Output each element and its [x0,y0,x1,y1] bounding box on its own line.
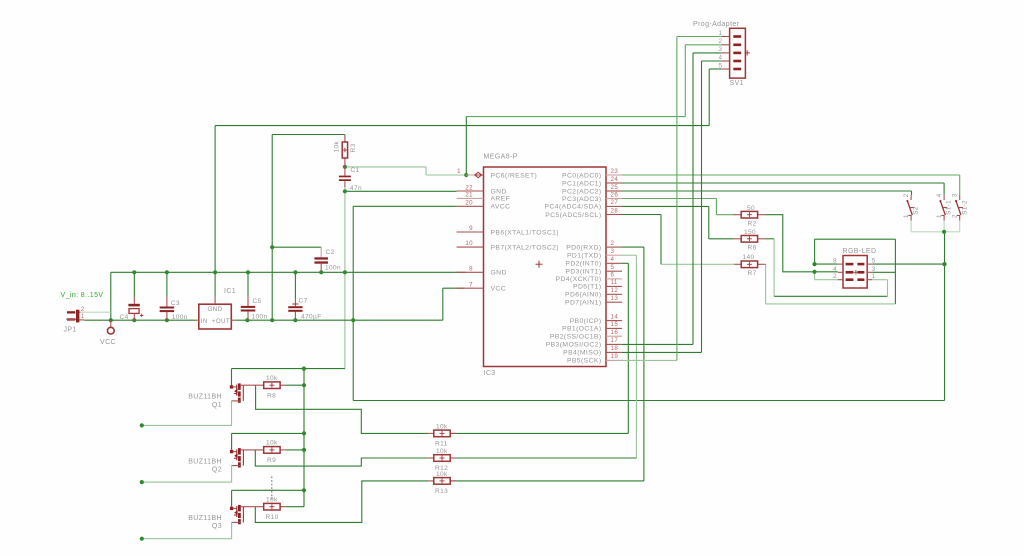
wire GND rail [111,271,466,273]
wire pin22 GND [345,190,457,192]
IC3 origin cross [536,263,543,265]
wire C5 top [247,272,249,296]
svg-text:PB0(ICP): PB0(ICP) [570,318,602,325]
svg-text:Q3: Q3 [212,523,222,530]
wire R9 right link [286,449,304,451]
svg-text:PC4(ADC4/SDA): PC4(ADC4/SDA) [545,204,602,211]
wire AVCC pin20 [353,205,456,207]
switch S1-2 [959,195,961,200]
capacitor C7 470uF [294,298,296,306]
svg-text:PC0(ADC0): PC0(ADC0) [562,172,601,179]
svg-text:3: 3 [872,266,876,273]
svg-text:2: 2 [719,38,723,45]
wire LED pin8 link [815,263,838,265]
svg-text:23: 23 [611,168,619,175]
svg-text:5: 5 [611,264,615,271]
capacitor C4 electrolytic [133,297,135,304]
svg-text:PD7(AIN1): PD7(AIN1) [565,300,601,307]
svg-text:5: 5 [872,258,876,265]
wire C4 top [133,272,135,296]
resistor R8 10k [243,384,263,386]
svg-text:10k: 10k [334,140,341,152]
svg-text:R11: R11 [435,441,448,448]
wire +5V long bottom horizontal [353,400,944,402]
SV1 origin cross [745,52,751,54]
svg-text:PB2(SS/OC1B): PB2(SS/OC1B) [550,334,602,341]
svg-text:1: 1 [872,273,876,280]
wire PC5 row to R7 [622,214,661,216]
wire Q3 top rail [232,489,304,491]
svg-text:2: 2 [81,307,85,313]
svg-text:4: 4 [833,266,837,273]
wire R2 right to LED pin4 [766,215,838,272]
svg-text:BUZ11BH: BUZ11BH [188,515,222,522]
svg-text:GND: GND [208,306,223,313]
switch S2 [910,195,912,200]
wire LED pin5 to switches [872,263,944,265]
svg-text:Q1: Q1 [212,402,222,409]
svg-text:4: 4 [719,54,723,61]
svg-text:2: 2 [952,214,959,218]
svg-text:SV1: SV1 [730,80,744,87]
svg-text:8: 8 [833,258,837,265]
svg-text:PB4(MISO): PB4(MISO) [563,350,601,357]
svg-text:IC3: IC3 [484,370,496,377]
svg-text:PC5(ADC5/SCL): PC5(ADC5/SCL) [545,212,601,219]
svg-text:PD4(XCK/T0): PD4(XCK/T0) [556,276,602,283]
switch S1-1 [943,195,945,200]
svg-text:14: 14 [611,313,619,320]
wire +5V rail [236,319,443,321]
svg-text:PB7(XTAL2/TOSC2): PB7(XTAL2/TOSC2) [491,244,559,251]
capacitor C2 100n [320,247,322,257]
svg-text:10k: 10k [436,423,448,430]
svg-text:28: 28 [611,207,619,214]
capacitor C3 100n [166,297,168,307]
wire R7 right to LED pin8 loop [765,264,767,304]
svg-text:10k: 10k [436,448,448,455]
wire R6 right to LED pin1 loop [766,238,775,240]
svg-text:11: 11 [611,279,618,286]
resistor R10 10k [243,506,263,508]
svg-text:S1-2: S1-2 [961,200,968,215]
svg-text:17: 17 [611,337,619,344]
wire GND bus verticals at Q column [303,369,305,507]
wire VCC to R3 top [272,134,345,136]
svg-text:50: 50 [747,205,755,212]
svg-text:PC1(ADC1): PC1(ADC1) [562,180,601,187]
resistor R7 140 [734,263,741,265]
svg-text:PD3(INT1): PD3(INT1) [565,269,601,276]
svg-text:V_in: 8..15V: V_in: 8..15V [61,292,104,299]
wire Q1 source down-left [142,401,232,426]
svg-text:19: 19 [611,353,619,360]
svg-text:18: 18 [611,345,619,352]
wire PB4 MISO to SV1 pin4 [622,351,702,353]
svg-text:3: 3 [952,193,959,197]
wire GND to Q1 [232,368,345,370]
svg-text:10k: 10k [436,471,448,478]
svg-text:20: 20 [465,200,473,207]
resistor R2 50 [733,214,741,216]
IC IC1 voltage regulator [199,304,232,329]
IC3 left pin stubs [475,174,484,176]
svg-text:R3: R3 [350,143,357,152]
resistor R9 10k [243,449,263,451]
svg-text:27: 27 [611,199,619,206]
wire Q3 gate tap to R13 [255,481,428,523]
RGB-LED pads and stubs [838,263,843,265]
svg-text:RGB-LED: RGB-LED [843,248,877,255]
svg-text:47n: 47n [350,185,362,192]
SV1 pin stubs and pads [721,36,729,38]
svg-text:IC1: IC1 [224,288,236,295]
junction dots [464,173,468,177]
wire PB5 SCK to SV1 pin1 [622,359,677,361]
svg-text:100n: 100n [325,264,341,271]
svg-text:2: 2 [833,273,837,280]
wire JP1 pin2 riser [110,272,112,320]
LED LED1 RGB-LED body [843,256,867,289]
supply symbol VCC [110,320,112,327]
wire SV1 pin5 link [709,68,721,70]
svg-text:470µF: 470µF [301,313,322,320]
svg-text:PB6(XTAL1/TOSC1): PB6(XTAL1/TOSC1) [491,229,559,236]
wire IC3 VCC pin7 [443,287,464,289]
svg-text:1: 1 [81,314,85,320]
IC3 pin1 inversion diamond [475,172,482,177]
svg-text:13: 13 [611,295,619,302]
svg-text:10: 10 [465,240,473,247]
svg-text:BUZ11BH: BUZ11BH [188,394,222,401]
transistor Q3 BUZ11BH [230,507,233,510]
wire RESET net from SV1 pin2 to IC3 pin1 [466,116,685,118]
svg-text:S2: S2 [913,206,920,215]
svg-text:Prog-Adapter: Prog-Adapter [693,21,740,28]
svg-text:R8: R8 [267,392,276,399]
svg-text:AVCC: AVCC [491,204,511,211]
svg-text:5: 5 [719,62,723,69]
capacitor C1 47n [344,167,346,176]
wire Q3 source down-left [142,522,232,538]
svg-text:6: 6 [611,272,615,279]
svg-text:PB1(OC1A): PB1(OC1A) [562,326,601,333]
svg-text:10k: 10k [266,440,278,447]
svg-text:PB3(MOSI/OC2): PB3(MOSI/OC2) [546,342,602,349]
wire PD1 to R12 [622,254,636,256]
wire C7 top [294,272,296,298]
svg-text:PC6(/RESET): PC6(/RESET) [491,172,538,179]
svg-text:3: 3 [719,46,723,53]
wire R3 bottom to C1 and IC3 pin1 [345,166,426,168]
svg-text:PB5(SCK): PB5(SCK) [567,358,602,365]
svg-text:C2: C2 [326,249,335,256]
svg-text:PD6(AIN0): PD6(AIN0) [565,292,601,299]
resistor R13 10k [428,480,434,482]
svg-text:R9: R9 [267,457,276,464]
svg-text:10k: 10k [266,497,278,504]
svg-text:C7: C7 [299,297,308,304]
svg-text:4: 4 [611,256,615,263]
svg-text:C1: C1 [351,167,360,174]
svg-text:IN: IN [201,318,208,325]
svg-text:C4: C4 [120,314,129,321]
svg-text:PD5(T1): PD5(T1) [573,284,601,291]
wire C3 top [166,272,168,296]
wire Vin rail [84,319,195,321]
wire R10 right link [286,506,304,508]
IC IC3 MEGA8-P body [484,167,607,367]
svg-text:100n: 100n [252,313,268,320]
svg-text:16: 16 [611,329,619,336]
wire Q2 source down-left [142,466,232,483]
svg-text:2: 2 [903,193,910,197]
svg-text:PD2(INT0): PD2(INT0) [565,261,601,268]
svg-text:24: 24 [611,176,619,183]
resistor R3 10k vertical [344,135,346,143]
svg-text:GND: GND [491,188,507,195]
wire PC4 row to R6 [622,205,709,207]
svg-text:8: 8 [469,265,473,272]
wire PC1 row to S1-1 [622,182,944,184]
svg-text:140: 140 [743,254,755,261]
svg-text:150: 150 [744,229,756,236]
svg-text:10k: 10k [266,375,278,382]
svg-text:12: 12 [611,287,619,294]
svg-text:BUZ11BH: BUZ11BH [188,458,222,465]
wire LED pin3 link [872,271,895,273]
svg-text:R2: R2 [748,220,757,227]
svg-text:VCC: VCC [491,286,507,293]
wire VCC vertical to IC1 GND [214,126,216,297]
wire PD0 to R13 [622,246,644,248]
svg-text:7: 7 [469,281,473,288]
svg-text:25: 25 [611,184,619,191]
svg-text:PC2(ADC2): PC2(ADC2) [562,188,601,195]
svg-text:R6: R6 [748,244,757,251]
svg-text:VCC: VCC [100,339,116,346]
wire PD2 to R11 [622,262,628,264]
RGB-LED polarity plus [854,271,859,273]
svg-text:PD0(RXD): PD0(RXD) [566,244,601,251]
svg-text:+OUT: +OUT [212,318,230,325]
svg-text:4: 4 [936,193,943,197]
svg-text:PC3(ADC3): PC3(ADC3) [562,196,601,203]
IC3 right pin stubs [606,174,622,176]
wire Q2 gate tap to R12 [255,450,428,466]
svg-text:15: 15 [611,321,619,328]
svg-text:21: 21 [465,192,473,199]
capacitor C5 100n [247,296,249,306]
wire switch bottom rail [911,231,960,233]
svg-text:9: 9 [469,225,473,232]
svg-text:3: 3 [611,248,615,255]
svg-text:2: 2 [611,240,615,247]
wire PC3 row to R2 [622,198,716,200]
svg-text:1: 1 [457,168,461,175]
svg-text:MEGA8-P: MEGA8-P [484,154,518,161]
svg-text:C5: C5 [253,298,262,305]
transistor Q2 BUZ11BH [230,450,233,453]
wire SV1 pin2 link [685,44,721,46]
connector JP1 [67,311,75,313]
svg-text:26: 26 [611,191,619,198]
resistor R6 150 [733,238,741,240]
svg-text:C3: C3 [171,300,180,307]
transistor Q1 BUZ11BH [230,385,233,388]
wire PC0 row to S1-2 [622,174,960,176]
wire Q1 gate tap to R11 [256,385,429,433]
wire Q2 top rail [232,432,304,434]
wire LED pin2 link [814,272,816,280]
wire PC2 row to S2 [622,190,912,192]
svg-text:1: 1 [719,30,723,37]
IC3 pin1 stub [466,174,475,176]
svg-text:1: 1 [936,214,943,218]
svg-text:JP1: JP1 [64,327,77,334]
svg-text:R7: R7 [748,270,757,277]
wire C2 branch [272,246,321,248]
wire GND vertical from C1 down [344,187,346,191]
svg-text:GND: GND [491,270,507,277]
svg-text:1: 1 [903,214,910,218]
dashed origin cross near R10 [271,477,273,500]
svg-text:100n: 100n [172,314,188,321]
wire VCC to SV1 pin5 [215,125,709,127]
svg-text:AREF: AREF [491,196,511,203]
connector SV1 Prog-Adapter body [730,28,746,78]
wire R8 right link [286,384,304,386]
svg-text:R10: R10 [266,514,279,521]
resistor R11 10k [428,432,434,434]
wire PB3 MOSI to SV1 pin3 [622,343,693,345]
svg-text:R13: R13 [435,488,448,495]
svg-text:22: 22 [465,184,473,191]
svg-text:PD1(TXD): PD1(TXD) [567,253,602,260]
svg-text:S1-1: S1-1 [946,200,953,215]
resistor R12 10k [428,457,434,459]
svg-text:Q2: Q2 [212,466,222,473]
